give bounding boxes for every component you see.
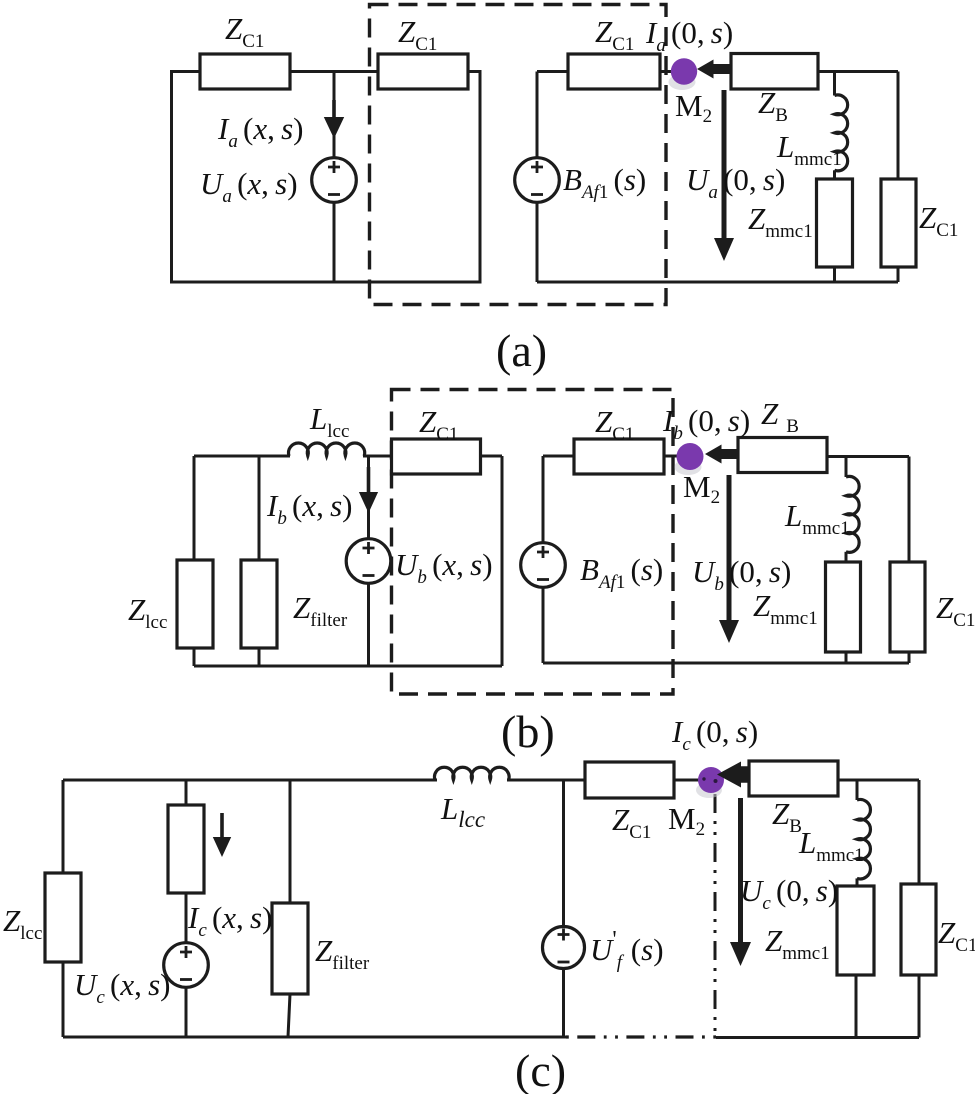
wire junction branch (c) bbox=[562, 780, 565, 1037]
resistor ZC1 right (b) bbox=[890, 562, 925, 652]
wire top left segment (c) bbox=[63, 779, 437, 782]
svg-text:Ua (x, s): Ua (x, s) bbox=[200, 166, 298, 207]
resistor box branch2 (c) bbox=[168, 805, 204, 893]
resistor ZC1 box3 (a) bbox=[568, 54, 660, 89]
resistor ZB (c) bbox=[749, 761, 838, 796]
minus sign Ua (a) bbox=[328, 193, 340, 196]
wire vertical branch (a) bbox=[333, 72, 336, 283]
inductor Llcc (c) bbox=[435, 767, 510, 780]
wire bottom solid left (c) bbox=[63, 1036, 566, 1039]
wire branch2 lower (c) bbox=[185, 893, 188, 1037]
wire middle bottom (b) bbox=[543, 662, 909, 665]
node M2 dot (b) bbox=[677, 443, 704, 470]
CIRCUIT-C bbox=[3, 714, 975, 1094]
wire bottom middle-right (a) bbox=[537, 281, 898, 284]
source Uc(x,s) circle (c) bbox=[164, 943, 209, 988]
resistor ZC1 box1 (a) bbox=[200, 54, 290, 89]
arrow into M2 (a) bbox=[697, 60, 731, 79]
voltage arrow Ub(0,s) (b) bbox=[719, 475, 739, 643]
source Uf circle (c) bbox=[543, 927, 585, 969]
source BAf1 circle (b) bbox=[521, 543, 566, 588]
wire right vertical lower (c) bbox=[918, 975, 921, 1038]
resistor ZC1 box2 (a) bbox=[378, 54, 468, 89]
svg-text:(c): (c) bbox=[515, 1045, 566, 1094]
svg-text:Uc (x, s): Uc (x, s) bbox=[74, 967, 170, 1008]
voltage arrow Uc(0,s) (c) bbox=[730, 798, 751, 966]
wire inductor to Zmmc1 (a) bbox=[833, 170, 836, 179]
wire left loop bottom (b) bbox=[194, 665, 502, 668]
node M2 dot (c) bbox=[698, 767, 724, 793]
inductor Lmmc1 (c) bbox=[857, 800, 870, 879]
current arrow small (c) bbox=[213, 813, 231, 857]
source BAf1 circle (a) bbox=[515, 158, 560, 203]
svg-text:U'f (s): U'f (s) bbox=[590, 927, 664, 973]
resistor ZB (b) bbox=[738, 438, 827, 473]
node M2 inner dots (c) bbox=[702, 777, 705, 780]
resistor ZC1 right (c) bbox=[901, 884, 936, 975]
wire Zmmc1 to bottom (a) bbox=[833, 267, 836, 282]
wire right vertical lower (a) bbox=[897, 267, 900, 282]
wire ZB to right corner (b) bbox=[827, 455, 909, 458]
minus sign Uf (c) bbox=[558, 961, 570, 964]
resistor Zmmc1 (c) bbox=[837, 886, 874, 975]
inductor Lmmc1 (b) bbox=[846, 476, 859, 552]
plus sign Uf (c) bbox=[558, 929, 570, 941]
wire middle top (a) bbox=[537, 70, 673, 73]
wire bottom solid right (c) bbox=[716, 1036, 919, 1039]
source Ua(x,s) circle (a) bbox=[312, 158, 357, 203]
wire left vertical (c) bbox=[62, 780, 65, 1037]
current arrow Ib(x,s) (b) bbox=[359, 467, 378, 513]
svg-text:Uc (0, s): Uc (0, s) bbox=[740, 873, 838, 914]
wire right vertical upper (c) bbox=[918, 780, 921, 884]
wire right vertical upper (b) bbox=[908, 457, 911, 563]
resistor Zmmc1 (a) bbox=[817, 179, 853, 267]
wire branch2 upper (c) bbox=[185, 780, 188, 805]
wire left loop (a) bbox=[172, 72, 481, 283]
plus sign Uc (c) bbox=[180, 946, 192, 958]
node M2 shadow (a) bbox=[669, 74, 696, 90]
plus sign Ua (a) bbox=[328, 161, 340, 173]
wire left loop left vertical (b) bbox=[193, 456, 196, 666]
resistor Zmmc1 (b) bbox=[826, 562, 861, 652]
resistor Zlcc (b) bbox=[177, 560, 213, 648]
node M2 dot (a) bbox=[671, 58, 697, 84]
wire Zfilter branch (b) bbox=[258, 456, 261, 666]
inductor Lmmc1 (a) bbox=[835, 95, 848, 171]
plus sign BAf1 (a) bbox=[531, 161, 543, 173]
wire Zmmc1 to bottom (c) bbox=[855, 975, 858, 1038]
wire left loop top-left segment (b) bbox=[194, 455, 290, 458]
wire left loop right vertical (b) bbox=[501, 456, 504, 666]
dashed boundary box (a) bbox=[370, 5, 667, 305]
minus sign BAf1 (b) bbox=[537, 578, 549, 581]
wire source branch (b) bbox=[367, 456, 370, 666]
resistor Zfilter (c) bbox=[272, 903, 308, 994]
current arrow Ia(x,s) (a) bbox=[324, 100, 344, 139]
resistor ZC1 left (b) bbox=[392, 439, 481, 474]
resistor ZC1 right (a) bbox=[881, 179, 916, 267]
resistor ZC1 middle (b) bbox=[574, 439, 664, 474]
node M2 shadow (c) bbox=[696, 782, 722, 798]
wire branch3 (c) bbox=[288, 780, 290, 1037]
dashed boundary box (b) bbox=[392, 390, 674, 695]
source Ub(x,s) circle (b) bbox=[346, 539, 391, 584]
svg-text:Ub (x, s): Ub (x, s) bbox=[395, 547, 493, 588]
wire ZB to right corner (a) bbox=[818, 70, 898, 73]
wire left loop top-right segment (b) bbox=[363, 455, 502, 458]
svg-text:(a): (a) bbox=[496, 325, 547, 376]
wire inductor branch top (c) bbox=[856, 780, 859, 800]
minus sign Uc (c) bbox=[180, 978, 192, 981]
wire ZB to right corner (c) bbox=[838, 779, 919, 782]
arrow into M2 (c) bbox=[717, 762, 749, 788]
wire inductor branch top (a) bbox=[833, 72, 836, 96]
wire middle loop left (a) bbox=[536, 72, 539, 283]
voltage arrow Ua(0,s) (a) bbox=[714, 90, 734, 261]
resistor ZC1 (c) bbox=[585, 762, 674, 798]
svg-text:Ua (0, s): Ua (0, s) bbox=[686, 162, 785, 203]
svg-text:(b): (b) bbox=[501, 706, 555, 757]
wire bottom dash-dot segment (c) bbox=[566, 1035, 716, 1038]
dash-dot vertical line (c) bbox=[714, 794, 717, 1037]
minus sign BAf1 (a) bbox=[531, 193, 543, 196]
svg-text:Ub (0, s): Ub (0, s) bbox=[692, 554, 791, 595]
wire inductor branch top (b) bbox=[845, 457, 848, 478]
resistor ZB (a) bbox=[731, 54, 818, 90]
wire right vertical upper (a) bbox=[897, 72, 900, 180]
resistor Zfilter (b) bbox=[241, 560, 277, 648]
plus sign Ub (b) bbox=[363, 542, 375, 554]
CIRCUIT-A bbox=[172, 5, 959, 377]
plus sign BAf1 (b) bbox=[537, 546, 549, 558]
resistor Zlcc (c) bbox=[45, 873, 81, 962]
arrow into M2 (b) bbox=[705, 445, 738, 464]
wire middle top (b) bbox=[543, 455, 679, 458]
wire top right segment (c) bbox=[507, 779, 700, 782]
wire right vertical lower (b) bbox=[908, 652, 911, 663]
wire Zmmc1 to bottom (b) bbox=[845, 652, 848, 663]
CIRCUIT-B bbox=[128, 390, 975, 758]
node M2 shadow (b) bbox=[675, 459, 702, 475]
wire inductor to Zmmc1 (c) bbox=[856, 878, 859, 886]
inductor Llcc (b) bbox=[289, 443, 365, 456]
wire inductor to Zmmc1 (b) bbox=[845, 552, 848, 562]
minus sign Ub (b) bbox=[363, 574, 375, 577]
wire middle loop left (b) bbox=[542, 456, 545, 663]
